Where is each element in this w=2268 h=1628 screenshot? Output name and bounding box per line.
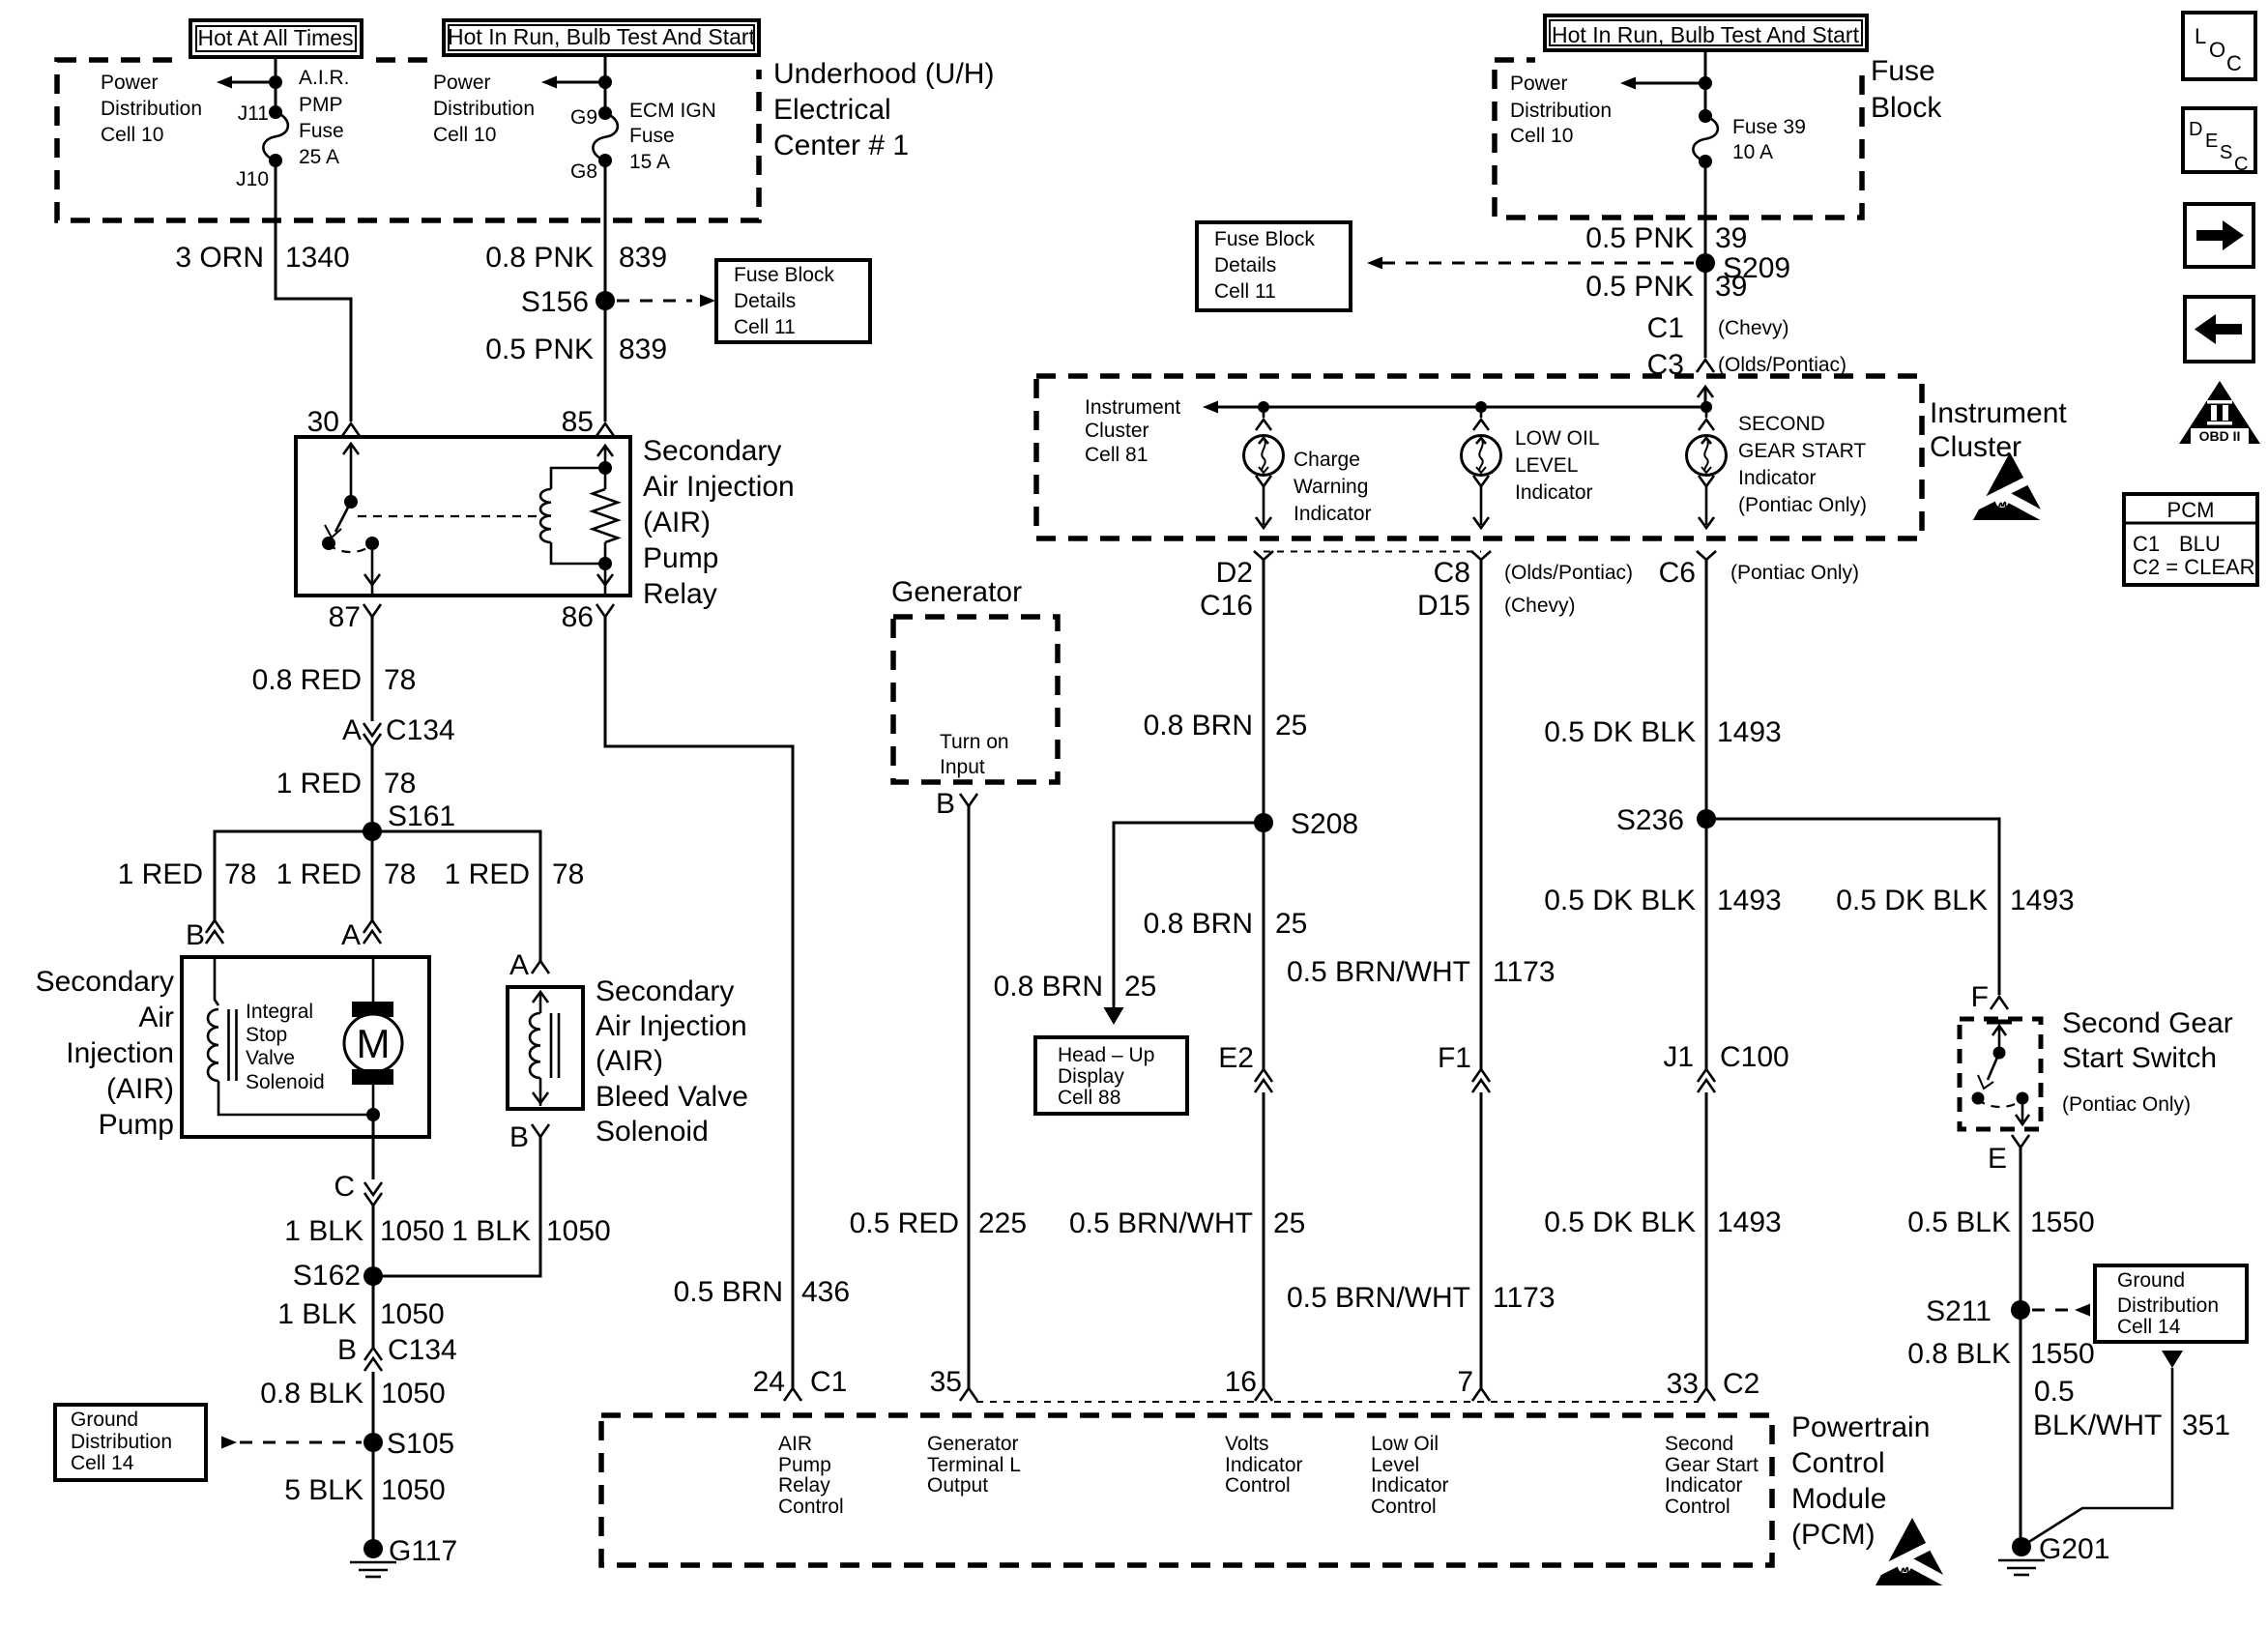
svg-text:G9: G9 xyxy=(570,106,597,129)
label 0.5 PNK 39 (upper) xyxy=(1585,222,1747,254)
pump pin B xyxy=(186,919,223,951)
pump pin A xyxy=(341,919,381,951)
label 0.5 BRN/WHT 25 xyxy=(1069,1207,1305,1239)
svg-text:PMP: PMP xyxy=(299,94,343,116)
svg-text:LOW OIL: LOW OIL xyxy=(1515,427,1600,450)
fuse ECM IGN 15A xyxy=(593,106,618,167)
connector F1 xyxy=(1438,1042,1490,1092)
svg-text:Start Switch: Start Switch xyxy=(2062,1042,2217,1074)
svg-text:C1: C1 xyxy=(1647,312,1684,344)
svg-text:1 RED: 1 RED xyxy=(276,768,362,799)
svg-text:1493: 1493 xyxy=(2010,885,2075,916)
svg-text:85: 85 xyxy=(562,406,594,438)
svg-text:1050: 1050 xyxy=(546,1215,611,1247)
wire 0.5 BRN/WHT 1173 F1 to PCM pin 7 xyxy=(1480,1092,1483,1388)
svg-text:Control: Control xyxy=(1371,1496,1437,1518)
svg-text:839: 839 xyxy=(619,242,667,274)
wire S161 branch right to bleed valve pin A xyxy=(372,831,540,961)
svg-text:Distribution: Distribution xyxy=(2117,1294,2219,1317)
wire 0.5 BRN/WHT 25 E2 to PCM pin 16 xyxy=(1263,1092,1265,1388)
header box Hot In Run (fuse block) xyxy=(1535,11,1876,69)
svg-text:(Olds/Pontiac): (Olds/Pontiac) xyxy=(1504,562,1633,584)
svg-text:Block: Block xyxy=(1871,92,1942,124)
wire S236 branch to switch pin F xyxy=(1706,819,1999,995)
svg-text:Distribution: Distribution xyxy=(71,1431,172,1453)
header box Hot At All Times xyxy=(180,15,372,70)
svg-text:Power: Power xyxy=(101,72,159,94)
label Second Gear Start Indicator Control xyxy=(1665,1433,1759,1518)
svg-text:Distribution: Distribution xyxy=(1510,100,1612,122)
svg-text:Fuse: Fuse xyxy=(1871,55,1935,87)
label Integral Stop Valve Solenoid xyxy=(246,1001,325,1093)
svg-text:25: 25 xyxy=(1275,908,1307,940)
label J10 xyxy=(236,168,269,190)
svg-text:0.5 DK BLK: 0.5 DK BLK xyxy=(1544,1206,1696,1238)
splice S105 xyxy=(363,1428,454,1460)
svg-text:Hot In Run, Bulb Test And Star: Hot In Run, Bulb Test And Start xyxy=(1552,22,1860,47)
pump motor M xyxy=(344,957,402,1121)
switch pin F xyxy=(1971,981,2008,1013)
label 1 RED 78 (right) xyxy=(445,858,585,890)
label 0.5 DK BLK 1493 (lowest) xyxy=(1544,1206,1782,1238)
wire 5 BLK 1050 S105 to G117 xyxy=(372,1442,375,1543)
cluster feed arrow up xyxy=(1698,387,1713,397)
label 0.5 RED 225 xyxy=(850,1207,1027,1239)
svg-text:(Chevy): (Chevy) xyxy=(1718,317,1789,339)
svg-text:Indicator: Indicator xyxy=(1371,1474,1449,1497)
svg-text:B: B xyxy=(186,919,205,951)
svg-text:J11: J11 xyxy=(238,102,269,125)
svg-text:E2: E2 xyxy=(1218,1042,1254,1074)
svg-text:Pump: Pump xyxy=(99,1109,174,1141)
label SECOND GEAR START Indicator xyxy=(1738,413,1867,516)
svg-text:Indicator: Indicator xyxy=(1738,467,1817,489)
arrow to Power Distribution Cell 10 (fuse block) xyxy=(1620,76,1712,90)
label Generator xyxy=(891,576,1022,608)
svg-text:Hot At All Times: Hot At All Times xyxy=(197,25,353,50)
svg-text:Terminal L: Terminal L xyxy=(927,1454,1021,1476)
relay box Secondary Air Injection Pump Relay xyxy=(296,437,630,596)
icon right arrow xyxy=(2185,204,2253,267)
svg-text:Head – Up: Head – Up xyxy=(1058,1044,1154,1066)
svg-text:0.5 BRN: 0.5 BRN xyxy=(674,1276,783,1308)
svg-text:Generator: Generator xyxy=(891,576,1022,608)
bleed valve solenoid box xyxy=(508,987,583,1109)
svg-text:Fuse: Fuse xyxy=(299,120,344,142)
svg-text:S105: S105 xyxy=(387,1428,454,1460)
svg-text:1 BLK: 1 BLK xyxy=(451,1215,531,1247)
icon DESC xyxy=(2183,108,2255,175)
label AIR Pump Relay Control xyxy=(778,1433,844,1518)
svg-text:Input: Input xyxy=(940,756,985,778)
second gear start switch dashed box xyxy=(1960,1019,2041,1129)
svg-text:30: 30 xyxy=(307,406,339,438)
relay switch output to pin 87 xyxy=(364,543,380,594)
svg-text:A.I.R.: A.I.R. xyxy=(299,67,350,89)
svg-text:S236: S236 xyxy=(1616,804,1684,836)
svg-text:C134: C134 xyxy=(388,1334,457,1366)
svg-text:L: L xyxy=(2195,24,2206,48)
svg-text:Cell 10: Cell 10 xyxy=(101,124,163,146)
svg-text:839: 839 xyxy=(619,334,667,365)
fuse AIR PMP 25A xyxy=(263,105,288,167)
PCM pin 16 xyxy=(1225,1366,1272,1401)
wire S161 down to pump pin A xyxy=(371,831,374,921)
svg-text:Indicator: Indicator xyxy=(1225,1454,1303,1476)
svg-text:Instrument: Instrument xyxy=(1930,397,2067,429)
svg-text:Pump: Pump xyxy=(643,542,718,574)
low oil level indicator bulb xyxy=(1462,401,1501,528)
svg-text:0.5 BRN/WHT: 0.5 BRN/WHT xyxy=(1287,1282,1470,1314)
label Power Distribution Cell 10 (mid) xyxy=(433,72,535,146)
wire 0.5 PNK 39 fuse to S209 xyxy=(1704,161,1707,263)
label Underhood Electrical Center xyxy=(773,58,994,161)
switch contact and arm xyxy=(1972,1022,2030,1124)
label Powertrain Control Module PCM xyxy=(1791,1411,1930,1551)
wire 1 BLK 1050 bleed valve B to S162 xyxy=(373,1137,540,1276)
svg-text:A: A xyxy=(341,919,361,951)
label Second Gear Start Switch xyxy=(2062,1007,2233,1116)
label Charge Warning Indicator xyxy=(1294,449,1372,525)
box Fuse Block Details Cell 11 (left) xyxy=(716,260,870,342)
wire 0.5 DK BLK 1493 S236 to J1 xyxy=(1705,819,1708,1069)
svg-text:Cell 14: Cell 14 xyxy=(71,1452,134,1474)
svg-text:0.5 PNK: 0.5 PNK xyxy=(1585,271,1694,303)
svg-text:Center # 1: Center # 1 xyxy=(773,130,909,161)
svg-text:Underhood (U/H): Underhood (U/H) xyxy=(773,58,994,90)
fuse block dashed box xyxy=(1495,60,1862,218)
svg-text:15 A: 15 A xyxy=(629,151,670,173)
svg-text:Secondary: Secondary xyxy=(643,435,781,467)
svg-text:Cluster: Cluster xyxy=(1085,420,1149,442)
connector C134 pin A xyxy=(342,714,455,746)
instrument cluster dashed box xyxy=(1036,376,1922,538)
wire 0.8 BRN 25 S208 to E2 xyxy=(1263,823,1265,1069)
svg-text:0.8 RED: 0.8 RED xyxy=(252,664,362,696)
svg-text:Low Oil: Low Oil xyxy=(1371,1433,1439,1455)
svg-text:G117: G117 xyxy=(389,1535,457,1567)
svg-text:Indicator: Indicator xyxy=(1665,1474,1743,1497)
label 0.8 BLK 1050 xyxy=(260,1378,446,1410)
svg-text:(Pontiac Only): (Pontiac Only) xyxy=(2062,1093,2191,1116)
svg-text:Details: Details xyxy=(734,290,796,312)
label Secondary Air Injection (AIR) Pump xyxy=(36,966,174,1141)
svg-text:0.5: 0.5 xyxy=(2034,1376,2075,1408)
svg-text:Control: Control xyxy=(1225,1474,1291,1497)
svg-text:16: 16 xyxy=(1225,1366,1257,1398)
cluster bus wire xyxy=(1203,401,1712,414)
svg-text:S208: S208 xyxy=(1291,808,1358,840)
svg-text:Charge: Charge xyxy=(1294,449,1360,471)
splice S236 xyxy=(1616,804,1716,836)
connector C134 pin B xyxy=(337,1334,457,1371)
label 0.5 BRN/WHT 1173 (upper) xyxy=(1287,956,1556,988)
switch pin E xyxy=(1988,1135,2029,1175)
svg-text:0.5 BRN/WHT: 0.5 BRN/WHT xyxy=(1069,1207,1253,1239)
svg-text:25: 25 xyxy=(1124,971,1156,1003)
svg-text:Output: Output xyxy=(927,1474,988,1497)
svg-text:0.8 PNK: 0.8 PNK xyxy=(485,242,594,274)
svg-text:Distribution: Distribution xyxy=(433,98,535,120)
svg-text:E: E xyxy=(2205,131,2218,152)
svg-text:1340: 1340 xyxy=(285,242,350,274)
svg-text:39: 39 xyxy=(1715,222,1747,254)
wire C3 into instrument cluster xyxy=(1704,389,1707,407)
svg-text:C134: C134 xyxy=(386,714,455,746)
svg-text:Gear Start: Gear Start xyxy=(1665,1454,1759,1476)
icon PCM connector table xyxy=(2124,494,2257,585)
svg-text:Fuse 39: Fuse 39 xyxy=(1732,116,1806,138)
dashed reference S209 to Fuse Block Details xyxy=(1367,257,1694,270)
svg-text:C16: C16 xyxy=(1200,590,1253,622)
PCM pin 7 xyxy=(1457,1366,1490,1401)
connector E2 xyxy=(1218,1042,1272,1092)
svg-text:1 BLK: 1 BLK xyxy=(284,1215,363,1247)
svg-text:5 BLK: 5 BLK xyxy=(284,1474,363,1506)
label 0.8 BRN 25 (branch) xyxy=(994,971,1157,1003)
relay pin 86 xyxy=(562,601,614,633)
svg-text:78: 78 xyxy=(384,768,416,799)
svg-text:78: 78 xyxy=(552,858,584,890)
connector C100 pin J1 xyxy=(1663,1041,1788,1092)
underhood electrical center dashed box xyxy=(57,60,759,220)
svg-text:GEAR START: GEAR START xyxy=(1738,440,1866,462)
label 3 ORN 1340 xyxy=(175,242,349,274)
svg-text:0.5 BLK: 0.5 BLK xyxy=(1907,1206,2011,1238)
svg-text:Fuse Block: Fuse Block xyxy=(734,264,834,286)
svg-text:F: F xyxy=(1971,981,1989,1013)
svg-text:(Pontiac Only): (Pontiac Only) xyxy=(1738,494,1867,516)
svg-text:C: C xyxy=(334,1171,355,1203)
wire 0.8 PNK 839 fuse G8 to S156 xyxy=(604,160,607,301)
svg-text:E: E xyxy=(1988,1143,2007,1175)
label 0.5 BRN 436 xyxy=(674,1276,850,1308)
svg-text:Integral: Integral xyxy=(246,1001,313,1023)
svg-text:Volts: Volts xyxy=(1225,1433,1269,1455)
label 0.5 BLK/WHT 351 xyxy=(2033,1376,2230,1441)
svg-text:Control: Control xyxy=(778,1496,844,1518)
label Fuse 39 10 A xyxy=(1732,116,1806,163)
svg-text:(AIR): (AIR) xyxy=(596,1045,663,1077)
svg-text:0.5 DK BLK: 0.5 DK BLK xyxy=(1836,885,1988,916)
header box Hot In Run Bulb Test And Start xyxy=(433,15,770,70)
wire 0.5 DK BLK 1493 C100 to PCM pin 33 xyxy=(1705,1092,1708,1388)
svg-text:1 BLK: 1 BLK xyxy=(277,1298,357,1330)
svg-text:Air Injection: Air Injection xyxy=(596,1010,747,1042)
svg-text:1050: 1050 xyxy=(381,1378,446,1410)
splice S211 xyxy=(1926,1295,2030,1327)
svg-text:Fuse Block: Fuse Block xyxy=(1214,228,1315,250)
svg-text:Power: Power xyxy=(433,72,491,94)
pump box Secondary Air Injection Pump xyxy=(182,957,429,1137)
svg-text:S156: S156 xyxy=(521,286,589,318)
svg-text:Bleed Valve: Bleed Valve xyxy=(596,1081,748,1113)
relay pin 30 xyxy=(307,406,360,438)
wire from Hot At All Times to fuse J11 xyxy=(275,57,277,112)
svg-text:M: M xyxy=(357,1021,391,1066)
svg-text:S211: S211 xyxy=(1926,1295,1992,1327)
svg-text:Powertrain: Powertrain xyxy=(1791,1411,1930,1443)
svg-text:J1: J1 xyxy=(1663,1041,1694,1073)
label 0.5 DK BLK 1493 (branch) xyxy=(1836,885,2075,916)
svg-text:0.5 DK BLK: 0.5 DK BLK xyxy=(1544,716,1696,748)
svg-text:S161: S161 xyxy=(388,800,455,832)
svg-text:Cell 11: Cell 11 xyxy=(734,316,796,338)
connector D2 C16 xyxy=(1200,551,1273,622)
svg-text:Relay: Relay xyxy=(643,578,717,610)
label Fuse Block xyxy=(1871,55,1942,124)
svg-text:436: 436 xyxy=(801,1276,850,1308)
svg-text:Cell 14: Cell 14 xyxy=(2117,1316,2181,1338)
splice S156 xyxy=(521,286,615,318)
svg-text:Injection: Injection xyxy=(66,1037,174,1069)
label 0.5 BLK 1550 xyxy=(1907,1206,2095,1238)
icon left arrow xyxy=(2185,297,2253,362)
wire 0.8 RED 78 pin 87 to C134 xyxy=(371,617,374,721)
svg-text:Distribution: Distribution xyxy=(101,98,202,120)
label 1 RED 78 (left) xyxy=(118,858,257,890)
wire 0.5 PNK 839 S156 to relay pin 85 xyxy=(604,301,607,422)
svg-text:0.8 BLK: 0.8 BLK xyxy=(1907,1338,2011,1370)
wire 0.5 RED 225 generator B to PCM pin 35 xyxy=(968,806,971,1388)
svg-text:1550: 1550 xyxy=(2030,1206,2095,1238)
svg-text:0.5 RED: 0.5 RED xyxy=(850,1207,959,1239)
svg-text:3 ORN: 3 ORN xyxy=(175,242,264,274)
svg-text:(Olds/Pontiac): (Olds/Pontiac) xyxy=(1718,354,1846,376)
arrow to Power Distribution Cell 10 (right feed) xyxy=(541,75,612,89)
svg-text:SECOND: SECOND xyxy=(1738,413,1825,435)
svg-text:1050: 1050 xyxy=(380,1215,445,1247)
label 1 BLK 1050 (below S162) xyxy=(277,1298,444,1330)
svg-text:C1: C1 xyxy=(810,1366,847,1398)
label 5 BLK 1050 xyxy=(284,1474,445,1506)
svg-text:O: O xyxy=(2209,38,2225,62)
connector C6 xyxy=(1659,551,1859,589)
svg-text:D2: D2 xyxy=(1216,557,1253,589)
svg-text:25: 25 xyxy=(1275,710,1307,741)
svg-text:1050: 1050 xyxy=(381,1474,446,1506)
label G9 xyxy=(570,106,597,129)
splice S161 xyxy=(363,800,455,841)
wire 3 ORN 1340 fuse J10 to relay pin 30 xyxy=(276,160,351,422)
bleed valve pin B xyxy=(509,1121,549,1153)
svg-text:25: 25 xyxy=(1273,1207,1305,1239)
svg-text:225: 225 xyxy=(978,1207,1027,1239)
svg-text:B: B xyxy=(936,788,955,820)
PCM pin 24 C1 xyxy=(753,1366,848,1401)
svg-text:J10: J10 xyxy=(236,168,269,190)
svg-text:39: 39 xyxy=(1715,271,1747,303)
svg-text:Cell 10: Cell 10 xyxy=(1510,125,1573,147)
ground G201 xyxy=(1998,1533,2109,1575)
svg-text:Solenoid: Solenoid xyxy=(596,1116,709,1148)
label 1 BLK 1050 (left pair) xyxy=(284,1215,444,1247)
dashed reference S156 to Fuse Block Details xyxy=(617,295,715,307)
svg-text:Relay: Relay xyxy=(778,1474,830,1497)
relay coil link dashed xyxy=(358,515,543,517)
box Ground Distribution Cell 14 (left) xyxy=(55,1405,206,1480)
svg-text:A: A xyxy=(342,714,362,746)
label 0.5 BRN/WHT 1173 (lower) xyxy=(1287,1282,1556,1314)
wire 1 RED 78 C134 to S161 xyxy=(371,746,374,831)
svg-text:Second: Second xyxy=(1665,1433,1733,1455)
svg-text:Indicator: Indicator xyxy=(1294,503,1372,525)
svg-text:Power: Power xyxy=(1510,73,1568,95)
wire 0.5 BLK/WHT 351 from Ground Distribution to G201 xyxy=(2027,1351,2183,1543)
relay coil xyxy=(540,446,613,564)
splice S162 xyxy=(293,1260,383,1292)
bleed valve solenoid coil xyxy=(530,992,559,1106)
label 1 RED 78 (upper) xyxy=(276,768,417,799)
fuse 39 10A xyxy=(1693,109,1718,168)
label Low Oil Level Indicator Control xyxy=(1371,1433,1449,1518)
svg-text:C6: C6 xyxy=(1659,557,1696,589)
pump pin C xyxy=(334,1171,382,1206)
svg-text:Turn on: Turn on xyxy=(940,731,1009,753)
connector C8 D15 xyxy=(1417,551,1633,622)
label 0.8 BRN 25 (below S208) xyxy=(1144,908,1308,940)
svg-text:1173: 1173 xyxy=(1493,956,1556,988)
svg-text:(AIR): (AIR) xyxy=(643,507,711,538)
svg-text:Indicator: Indicator xyxy=(1515,481,1593,504)
svg-text:C100: C100 xyxy=(1720,1041,1789,1073)
svg-text:1050: 1050 xyxy=(380,1298,445,1330)
wire 0.8 BRN 25 D2 to S208 xyxy=(1263,560,1265,823)
box Ground Distribution Cell 14 (right) xyxy=(2095,1265,2247,1342)
svg-text:Cell 11: Cell 11 xyxy=(1214,280,1276,303)
svg-text:C2: C2 xyxy=(1723,1368,1759,1400)
svg-text:Air: Air xyxy=(138,1002,174,1033)
ESD symbol near cluster xyxy=(1973,452,2050,520)
svg-text:(Pontiac Only): (Pontiac Only) xyxy=(1730,562,1859,584)
label 0.5 DK BLK 1493 (below S236) xyxy=(1544,885,1782,916)
label Generator Terminal L Output xyxy=(927,1433,1021,1497)
svg-text:Pump: Pump xyxy=(778,1454,831,1476)
splice S208 xyxy=(1254,808,1358,840)
label LOW OIL LEVEL Indicator xyxy=(1515,427,1600,504)
svg-text:Generator: Generator xyxy=(927,1433,1019,1455)
wire 0.8 BLK 1550 S211 to G201 xyxy=(2020,1310,2022,1547)
label 1 BLK 1050 (right pair) xyxy=(451,1215,610,1247)
label Turn on Input xyxy=(940,731,1009,778)
svg-text:B: B xyxy=(509,1121,529,1153)
svg-text:F1: F1 xyxy=(1438,1042,1471,1074)
arrow to Power Distribution Cell 10 (left feed) xyxy=(217,75,282,89)
svg-text:Cell 88: Cell 88 xyxy=(1058,1087,1120,1109)
wire 0.8 BLK 1050 C134 to S105 xyxy=(372,1372,375,1442)
svg-text:Valve: Valve xyxy=(246,1047,295,1069)
icon OBD II triangle xyxy=(2179,381,2260,444)
svg-text:1173: 1173 xyxy=(1493,1282,1556,1314)
svg-text:0.5 PNK: 0.5 PNK xyxy=(1585,222,1694,254)
svg-text:Ground: Ground xyxy=(2117,1269,2185,1292)
svg-text:Display: Display xyxy=(1058,1065,1124,1088)
svg-text:0.8 BRN: 0.8 BRN xyxy=(1144,710,1253,741)
label Instrument Cluster Cell 81 xyxy=(1085,396,1180,466)
label ECM IGN Fuse 15 A xyxy=(629,100,716,173)
svg-text:C2 = CLEAR: C2 = CLEAR xyxy=(2133,555,2255,579)
generator dashed box xyxy=(893,617,1058,782)
svg-text:7: 7 xyxy=(1457,1366,1473,1398)
charge warning indicator bulb xyxy=(1244,401,1284,528)
bleed valve pin A xyxy=(509,949,549,981)
svg-text:Stop: Stop xyxy=(246,1024,287,1046)
PCM dashed box xyxy=(601,1415,1772,1565)
label 0.5 PNK 39 (lower) xyxy=(1585,271,1747,303)
svg-text:(PCM): (PCM) xyxy=(1791,1519,1875,1551)
svg-text:78: 78 xyxy=(384,858,416,890)
svg-text:ECM IGN: ECM IGN xyxy=(629,100,716,122)
